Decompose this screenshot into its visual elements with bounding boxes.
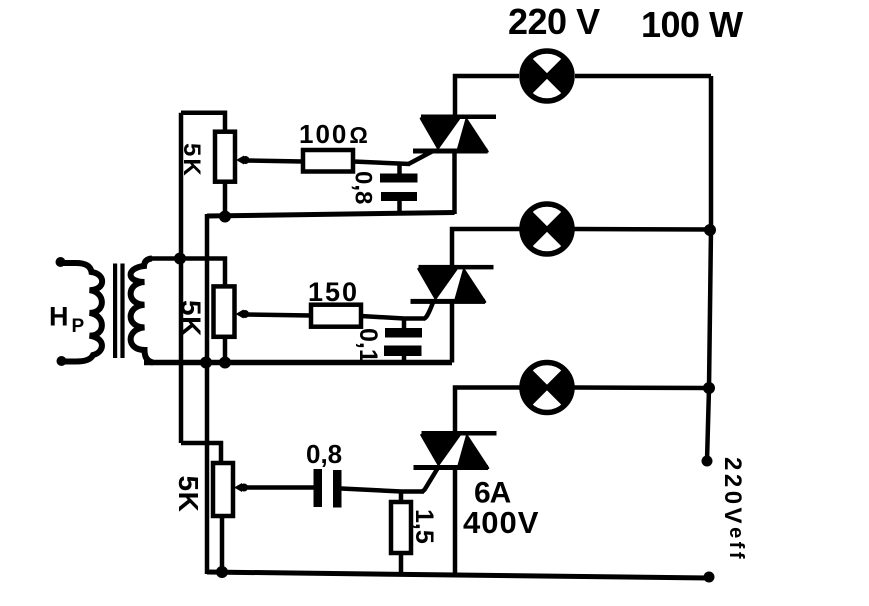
svg-text:H: H bbox=[49, 302, 69, 332]
wire transformer bottom bus bbox=[144, 360, 452, 366]
core line right bbox=[120, 264, 124, 359]
node junction lamp LA2 / supply rail bbox=[704, 224, 716, 236]
wire lamp LA1 left bbox=[455, 76, 519, 116]
capacitor C2 0,1 bbox=[384, 319, 422, 364]
wire lamp LA2 right bbox=[573, 227, 711, 232]
svg-text:400V: 400V bbox=[463, 505, 539, 540]
wiper arrow P2 bbox=[236, 310, 244, 319]
wire P2 bottom bbox=[223, 337, 228, 363]
svg-text:5K: 5K bbox=[173, 476, 204, 513]
wire line A (secondary top net, ch1 to ch3) bbox=[179, 113, 184, 443]
svg-text:5K: 5K bbox=[176, 300, 207, 337]
wire P3 bottom bbox=[220, 516, 225, 573]
resistor R3 1,5 bbox=[391, 492, 411, 576]
wire P3 wiper to C3 bbox=[244, 485, 316, 490]
core line left bbox=[113, 264, 117, 359]
node wiper dot P3 bbox=[240, 484, 248, 492]
wire P1 bottom bbox=[223, 182, 228, 217]
transformer T1 (HP driver) bbox=[56, 257, 154, 366]
svg-text:0,1: 0,1 bbox=[354, 328, 382, 363]
node junction P3 bottom / neutral rail bbox=[216, 566, 228, 578]
wire C3 to TR3 gate bbox=[341, 489, 424, 492]
wire channel3 top bracket bbox=[181, 443, 221, 464]
node supply terminal bottom (220Veff) bbox=[704, 572, 715, 583]
wire bottom neutral rail bbox=[207, 572, 709, 578]
potentiometer P2 5K bbox=[214, 286, 235, 336]
svg-text:150: 150 bbox=[308, 277, 359, 307]
potentiometer P1 5K bbox=[215, 132, 235, 182]
lamp LA2 220V 100W bbox=[522, 204, 572, 254]
resistor R2 150 bbox=[311, 305, 361, 327]
wire P2 wiper to R2 bbox=[246, 315, 312, 316]
wire lamp LA3 left bbox=[455, 388, 521, 433]
node junction line B / bottom bus bbox=[200, 357, 212, 369]
svg-text:1,5: 1,5 bbox=[410, 509, 438, 544]
wire lamp LA3 right bbox=[573, 385, 709, 390]
node wiper dot P1 bbox=[242, 156, 250, 164]
node wiper dot P2 bbox=[241, 310, 249, 318]
wire R1 to TR1 gate bbox=[353, 162, 410, 165]
node supply terminal top (220Veff) bbox=[702, 456, 713, 467]
wire triac TR1 MT1 to bus bbox=[452, 152, 457, 214]
node primary terminal top bbox=[56, 257, 66, 267]
wire lamp LA2 left bbox=[452, 229, 521, 266]
lamp LA3 220V 100W bbox=[522, 363, 572, 413]
wire R2 to TR2 gate bbox=[361, 316, 425, 319]
winding primary bbox=[61, 263, 103, 362]
wire triac TR2 MT1 to bus bbox=[450, 302, 455, 363]
wire secondary top to P2 bbox=[150, 259, 225, 288]
wiper arrow P1 bbox=[236, 156, 244, 165]
wire P1 wiper to R1 bbox=[246, 161, 303, 162]
node junction secondary top / line A bbox=[174, 253, 186, 265]
wire channel1 top bracket bbox=[181, 113, 225, 132]
triac TR3 bbox=[414, 431, 497, 492]
wire channel1 bottom bus bbox=[207, 213, 455, 217]
svg-text:0,8: 0,8 bbox=[306, 439, 342, 469]
potentiometer P3 5K bbox=[213, 463, 233, 516]
capacitor C1 0.8 bbox=[380, 164, 418, 216]
wire right supply rail bbox=[707, 76, 711, 461]
svg-text:100 W: 100 W bbox=[641, 4, 743, 45]
resistor R1 100 ohm bbox=[303, 150, 353, 172]
svg-text:P: P bbox=[72, 316, 85, 337]
winding secondary bbox=[131, 259, 153, 363]
node junction P2 bottom / bottom bus bbox=[219, 357, 231, 369]
svg-text:100Ω: 100Ω bbox=[299, 119, 370, 149]
node junction lamp LA3 / supply rail bbox=[703, 382, 715, 394]
capacitor C3 0,8 series bbox=[314, 469, 342, 508]
wire lamp LA1 right bbox=[575, 74, 711, 79]
lamp LA1 220V 100W bbox=[522, 51, 572, 101]
svg-text:220 V: 220 V bbox=[508, 1, 600, 42]
triac TR1 bbox=[409, 115, 497, 165]
wiper arrow P3 bbox=[234, 483, 242, 492]
wire line B (neutral bus vertical) bbox=[205, 214, 210, 574]
node junction P1 bottom / bus bbox=[219, 211, 231, 223]
wire triac TR3 MT1 to neutral rail bbox=[453, 468, 458, 577]
triac TR2 bbox=[411, 265, 494, 319]
node primary terminal bottom bbox=[57, 356, 67, 366]
svg-text:0,8: 0,8 bbox=[350, 171, 377, 204]
